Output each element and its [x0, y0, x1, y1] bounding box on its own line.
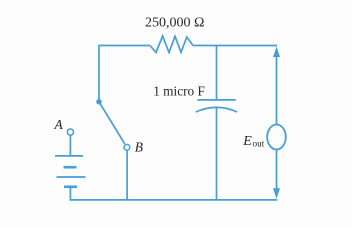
capacitor 1 micro F top plate: [197, 99, 235, 101]
svg-text:1 micro F: 1 micro F: [153, 84, 205, 99]
capacitor curved bottom plate: [196, 107, 237, 112]
wire top rail right segment: [193, 45, 277, 47]
wire switch blade: [99, 102, 125, 144]
contact B terminal circle: [124, 144, 130, 150]
wire capacitor bottom lead: [216, 107, 218, 200]
wire battery to bottom rail: [69, 188, 71, 200]
battery plate long: [57, 176, 86, 178]
svg-text:out: out: [253, 138, 265, 148]
battery plate long top: [55, 155, 83, 157]
arrowhead up at top rail: [273, 47, 280, 58]
arrowhead down at bottom rail: [273, 188, 280, 199]
E out terminal ellipse: [267, 125, 286, 150]
wire E out arrow line lower: [276, 150, 278, 192]
wire bottom rail: [70, 199, 278, 201]
battery plate short bottom: [64, 186, 77, 189]
wire contact B to bottom rail: [126, 150, 128, 200]
battery plate short: [64, 166, 77, 169]
svg-text:250,000 Ω: 250,000 Ω: [145, 16, 204, 31]
wire contact A to battery: [69, 135, 71, 155]
svg-text:E: E: [242, 134, 252, 149]
wire capacitor top lead: [216, 46, 218, 100]
switch pivot junction dot: [96, 99, 102, 105]
contact A terminal circle: [67, 129, 73, 135]
svg-text:B: B: [135, 139, 143, 154]
wire left vertical branch: [98, 45, 100, 102]
resistor 250,000 ohm: [150, 36, 193, 53]
svg-text:A: A: [54, 117, 64, 132]
wire top rail left segment: [99, 45, 150, 47]
wire E out arrow line upper: [276, 54, 278, 125]
